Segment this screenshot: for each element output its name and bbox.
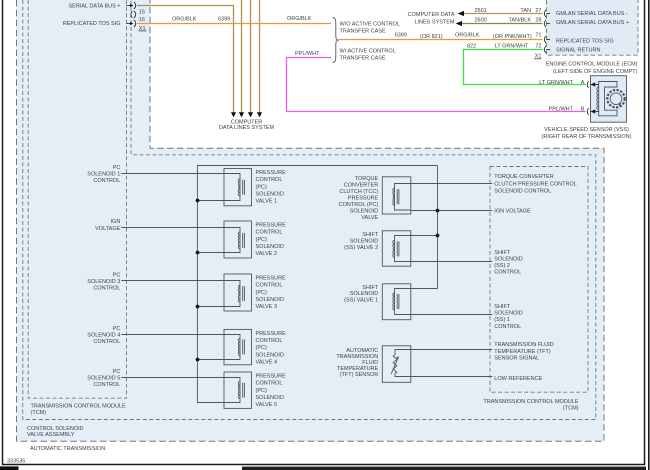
junction: bus / PC valve 3 [196,305,200,309]
wire: PPL/WHT replicated TOS signal to VSS pin B [287,58,586,112]
connector: ECM X1 pin 27 [544,10,550,17]
svg-text:VEHICLE SPEED SENSOR (VSS): VEHICLE SPEED SENSOR (VSS) [544,127,629,133]
svg-text:SOLENOID: SOLENOID [350,239,378,245]
connector: TCM X1 pin 16 (empty cavity) [131,11,136,18]
svg-text:PRESSURE: PRESSURE [256,373,287,379]
svg-text:15: 15 [139,9,145,15]
svg-text:28: 28 [535,18,541,24]
svg-text:LT GRN/WHT: LT GRN/WHT [539,80,573,86]
wire: PC solenoid 1 control [121,173,224,175]
wire: SS valve 1 high side to bus [411,288,438,290]
wire: computer data line 3 (tan) [250,0,252,113]
VSS pickup coil [597,87,599,110]
wire: left IGN bus vertical [197,166,224,403]
svg-text:CONTROL: CONTROL [93,339,120,345]
svg-text:SIGNAL RETURN: SIGNAL RETURN [556,47,600,53]
solenoid valve V2 (PC solenoid valve 2) [224,221,252,258]
connector: TCM X1 pin 15 [127,2,136,9]
svg-text:VALVE: VALVE [361,215,378,221]
svg-text:CLUTCH (TCC): CLUTCH (TCC) [339,189,378,195]
svg-text:ORG/BLK: ORG/BLK [287,16,312,22]
svg-text:(PC): (PC) [256,345,267,351]
svg-text:W/O ACTIVE CONTROL: W/O ACTIVE CONTROL [340,21,401,27]
svg-text:LT GRN/WHT: LT GRN/WHT [495,44,529,50]
arrowhead: computer data line 3 down [248,112,253,117]
svg-text:CONTROL: CONTROL [494,324,521,330]
svg-text:TRANSFER CASE: TRANSFER CASE [340,55,386,61]
svg-text:CONTROL: CONTROL [93,286,120,292]
svg-text:(TCM): (TCM) [31,410,47,416]
svg-text:SOLENOID: SOLENOID [256,297,284,303]
svg-text:SOLENOID: SOLENOID [256,395,284,401]
svg-text:CLUTCH PRESSURE CONTROL: CLUTCH PRESSURE CONTROL [494,181,577,187]
junction: bus / PC valve 1 [196,199,200,203]
arrowhead: computer data line 1 down [231,112,236,117]
svg-text:(PC): (PC) [256,388,267,394]
wire: SS valve 2 high side to bus [411,235,438,237]
svg-text:TAN: TAN [520,8,531,14]
svg-text:TRANSMISSION CONTROL MODULE: TRANSMISSION CONTROL MODULE [483,399,578,405]
vehicle speed sensor (VSS) [587,76,626,123]
engine control module (ECM) boundary (dashed) [547,0,639,55]
svg-text:CONTROL: CONTROL [93,178,120,184]
junction: right bus / IGN voltage wire [436,209,440,213]
svg-text:CONVERTER: CONVERTER [344,183,378,189]
thermistor RT1 (automatic transmission fluid temperature TFT sensor) [382,346,411,383]
svg-text:71: 71 [535,33,541,39]
bottom bar left segment [0,466,19,470]
svg-text:VALVE 3: VALVE 3 [256,304,278,310]
solenoid valve V3 (PC solenoid valve 3) [224,274,252,311]
wire: circuit 6399 ORG/BLK left segment (replicated TOS sig) [137,23,331,25]
svg-text:16: 16 [139,17,145,23]
svg-text:SOLENOID: SOLENOID [494,311,522,317]
svg-text:CONTROL: CONTROL [93,382,120,388]
window edge line right [648,0,650,470]
svg-text:333535: 333535 [7,458,25,464]
wire: PC solenoid 5 control [121,377,224,379]
connector: TCM X1 pin (replicated TOS sig) [127,20,136,27]
engine control module (ECM) block fill [547,0,639,55]
svg-text:PPL/WHT: PPL/WHT [549,106,574,112]
arrowhead: computer data line 2 down [239,112,244,117]
wire: circuit 2600 TAN/BLK from ECM pin 28 [462,23,543,25]
svg-text:VOLTAGE: VOLTAGE [95,226,120,232]
svg-text:(PC): (PC) [256,184,267,190]
svg-text:GMLAN SERIAL DATA BUS -: GMLAN SERIAL DATA BUS - [556,11,628,17]
VSS reluctor gear [607,90,624,107]
connector: ECM X1 pin 71 [544,36,550,43]
wire: right IGN bus vertical [437,166,439,289]
wire: top rail from left bus to right bus [197,165,437,167]
solenoid valve V1 (PC solenoid valve 1) [224,169,252,206]
wire: IGN voltage feed to PC solenoid valve 2 [121,227,224,229]
svg-text:2501: 2501 [475,8,487,14]
bottom bar right segment [242,467,646,470]
svg-text:VALVE 2: VALVE 2 [256,251,278,257]
svg-text:PPL/WHT: PPL/WHT [295,51,320,57]
svg-text:CONTROL SOLENOID: CONTROL SOLENOID [27,426,84,432]
underline X1 (ECM) [534,58,542,60]
svg-text:PC: PC [113,165,121,171]
svg-text:DATA LINES SYSTEM: DATA LINES SYSTEM [219,125,275,131]
svg-text:(RIGHT REAR OF TRANSMISSION): (RIGHT REAR OF TRANSMISSION) [542,134,632,140]
wire: TCC solenoid low side / IGN voltage to TCM [411,210,493,212]
svg-text:(PC): (PC) [256,237,267,243]
wire: circuit 822 LT GRN/WHT signal return, ECM pin 72 to VSS pin A [464,50,586,85]
svg-text:CONTROL: CONTROL [256,338,283,344]
svg-text:SHIFT: SHIFT [362,232,379,238]
svg-text:(SS) 1: (SS) 1 [494,317,510,323]
svg-text:CONTROL: CONTROL [256,381,283,387]
junction: right bus / SS valve 2 [436,234,440,238]
arrowhead: computer data line 4 down [257,112,262,117]
svg-text:(SS) VALVE 1: (SS) VALVE 1 [344,298,378,304]
wire: TCC solenoid control to TCM [411,183,493,185]
wire: PC solenoid 3 control [121,280,224,282]
svg-text:CONTROL: CONTROL [256,177,283,183]
svg-text:REPLICATED TOS SIG: REPLICATED TOS SIG [63,21,121,27]
solenoid valve V4 (PC solenoid valve 4) [224,329,252,364]
svg-text:W/ ACTIVE CONTROL: W/ ACTIVE CONTROL [340,48,396,54]
svg-text:CONTROL: CONTROL [256,283,283,289]
svg-text:TAN/BLK: TAN/BLK [508,18,531,24]
svg-text:PC: PC [113,369,121,375]
svg-text:TRANSMISSION FLUID: TRANSMISSION FLUID [494,342,553,348]
svg-text:SHIFT: SHIFT [494,304,511,310]
svg-text:SOLENOID 4: SOLENOID 4 [87,333,120,339]
wire: PC solenoid 4 control [121,334,224,336]
svg-text:SOLENOID CONTROL: SOLENOID CONTROL [494,188,551,194]
svg-text:VALVE 4: VALVE 4 [256,360,278,366]
svg-text:ORG/BLK: ORG/BLK [172,16,197,22]
svg-text:LOW REFERENCE: LOW REFERENCE [494,376,542,382]
wire: circuit 6399 ORG/BLK right segment to ECM pin 71 [339,39,543,41]
wire: shift solenoid 1 control to TCM [411,314,493,316]
svg-text:6399: 6399 [395,33,407,39]
wire: TFT sensor low reference to TCM [411,376,493,378]
svg-text:PRESSURE: PRESSURE [256,331,287,337]
svg-text:PC: PC [113,273,121,279]
svg-text:SOLENOID: SOLENOID [494,257,522,263]
connector: VSS pin B [587,108,588,115]
svg-text:SOLENOID: SOLENOID [350,208,378,214]
svg-text:IGN VOLTAGE: IGN VOLTAGE [494,208,531,214]
svg-text:PRESSURE: PRESSURE [256,222,287,228]
wire: PC solenoid valve 3 low side to bus [197,306,224,308]
svg-text:TRANSFER CASE: TRANSFER CASE [340,28,386,34]
svg-text:6399: 6399 [218,16,230,22]
svg-text:PRESSURE: PRESSURE [256,170,287,176]
svg-text:VALVE 5: VALVE 5 [256,402,278,408]
svg-text:REPLICATED TOS SIG: REPLICATED TOS SIG [556,38,614,44]
connector: ECM X1 pin 72 [544,46,550,53]
junction: bus / PC valve 4 [196,358,200,362]
svg-text:TEMPERATURE (TFT): TEMPERATURE (TFT) [494,349,551,355]
svg-text:822: 822 [467,44,476,50]
arrowhead: circuit 2501 to computer data lines system (left) [458,11,464,16]
solenoid valve V5 (PC solenoid valve 5) [224,372,252,408]
svg-text:(PC): (PC) [256,290,267,296]
wire: PC solenoid valve 1 low side to bus [197,200,224,202]
wire: circuit 2501 TAN from ECM pin 27 [464,13,543,15]
svg-text:SOLENOID: SOLENOID [350,291,378,297]
svg-text:SENSOR SIGNAL: SENSOR SIGNAL [494,356,539,362]
solenoid valve SS1 (shift solenoid valve 1) [382,284,411,320]
svg-text:(OR PNK/WHT): (OR PNK/WHT) [493,34,532,40]
wire: shift solenoid 2 control to TCM [411,261,493,263]
svg-text:(SS) 2: (SS) 2 [494,263,510,269]
wire: TFT sensor signal to TCM [411,349,493,351]
svg-text:CONTROL: CONTROL [256,230,283,236]
wire: computer data line 4 (tan) [259,0,261,113]
svg-text:27: 27 [535,8,541,14]
svg-text:SOLENOID 1: SOLENOID 1 [87,172,120,178]
wire: PC solenoid valve 4 low side to bus [197,359,224,361]
svg-text:AUTOMATIC TRANSMISSION: AUTOMATIC TRANSMISSION [30,446,105,452]
svg-text:TORQUE CONVERTER: TORQUE CONVERTER [494,174,553,180]
svg-text:SOLENOID: SOLENOID [256,352,284,358]
svg-text:TRANSMISSION CONTROL MODULE: TRANSMISSION CONTROL MODULE [31,404,126,410]
svg-text:ENGINE CONTROL MODULE (ECM): ENGINE CONTROL MODULE (ECM) [546,62,638,68]
svg-text:SOLENOID: SOLENOID [256,244,284,250]
svg-text:SOLENOID 5: SOLENOID 5 [87,376,120,382]
arrowhead: circuit 2600 to computer data lines system (left) [456,21,462,26]
transmission control module (TCM) right boundary (dashed) [490,167,588,393]
svg-text:2600: 2600 [475,18,487,24]
VSS pickup bracket [599,82,617,116]
svg-text:ORG/BLK: ORG/BLK [455,33,480,39]
svg-text:SOLENOID: SOLENOID [256,192,284,198]
solenoid valve TCC (torque converter clutch PC solenoid valve) [382,177,411,214]
svg-text:CONTROL: CONTROL [494,270,521,276]
solenoid valve SS2 (shift solenoid valve 2) [382,231,411,266]
svg-text:SERIAL DATA BUS +: SERIAL DATA BUS + [68,4,120,10]
svg-text:TORQUE: TORQUE [355,176,379,182]
svg-text:CONTROL (PC): CONTROL (PC) [339,202,379,208]
svg-text:(SS) VALVE 2: (SS) VALVE 2 [344,245,378,251]
svg-text:(TCM): (TCM) [563,405,579,411]
svg-text:SOLENOID 3: SOLENOID 3 [87,279,120,285]
wire: computer data line 2 (tan) [241,0,243,113]
junction: bus / PC valve 2 [196,251,200,255]
connector: ECM X1 pin 28 [544,20,550,27]
svg-text:SHIFT: SHIFT [362,285,379,291]
svg-text:72: 72 [535,44,541,50]
svg-text:PRESSURE: PRESSURE [256,275,287,281]
svg-text:(OR 821): (OR 821) [420,34,443,40]
wire: serial data bus + (tan) from TCM pin 15 to computer data lines [137,6,234,113]
control solenoid valve assembly boundary (dashed) [23,0,596,420]
transmission control module (TCM) left boundary (dashed) [28,0,126,398]
svg-text:PC: PC [113,326,121,332]
svg-text:(TFT) SENSOR: (TFT) SENSOR [340,372,379,378]
svg-text:GMLAN SERIAL DATA BUS +: GMLAN SERIAL DATA BUS + [556,20,629,26]
underline X1 (TCM) [139,30,147,32]
svg-text:VALVE ASSEMBLY: VALVE ASSEMBLY [27,432,75,438]
svg-text:IGN: IGN [111,219,121,225]
svg-text:A: A [581,80,585,86]
svg-text:PRESSURE: PRESSURE [348,196,379,202]
svg-text:SHIFT: SHIFT [494,250,511,256]
svg-text:LINES SYSTEM: LINES SYSTEM [414,20,454,26]
brace: transfer case option split [333,17,339,62]
svg-text:B: B [581,106,585,112]
wire: PC solenoid valve 2 low side to bus [197,252,224,254]
svg-text:COMPUTER DATA: COMPUTER DATA [408,12,455,18]
svg-text:(LEFT SIDE OF ENGINE COMPT): (LEFT SIDE OF ENGINE COMPT) [553,69,638,75]
connector: VSS pin A [587,81,588,88]
svg-text:VALVE 1: VALVE 1 [256,199,278,205]
